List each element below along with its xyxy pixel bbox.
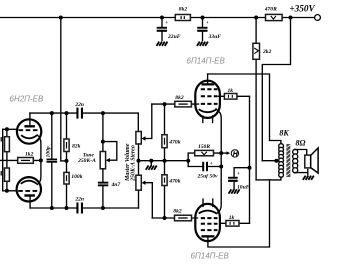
capacitor 22n bottom (74, 197, 84, 214)
svg-text:6Н2П-ЕВ: 6Н2П-ЕВ (10, 95, 44, 104)
pentode V2 envelope (195, 81, 220, 118)
capacitor 25uf 50v (188, 161, 221, 179)
capacitor C 33uF (197, 18, 221, 41)
triode V1b cathode (21, 181, 37, 184)
wire B+ top rail (1, 17, 315, 19)
svg-text:33uF: 33uF (208, 34, 222, 40)
node center tap (274, 159, 278, 163)
resistor 1k top (screen) (218, 88, 249, 99)
resistor input R bottom (5, 160, 10, 190)
pentode V3 envelope (195, 204, 220, 241)
node bottom-100p (50, 206, 54, 210)
transformer T1 primary (279, 144, 284, 178)
wire primary bottom lead (270, 177, 281, 180)
node gndrow-470k (163, 159, 167, 163)
wire center tap (262, 160, 279, 162)
svg-text:+: + (210, 161, 213, 167)
triode V1a circle (17, 119, 41, 143)
resistor 470k bottom (162, 161, 181, 218)
node pot-ground-row (137, 159, 141, 163)
wire secondary top (295, 150, 307, 156)
wire secondary bottom (295, 169, 308, 174)
svg-text:+350V: +350V (289, 4, 315, 14)
pentode V3 grids (201, 217, 218, 219)
node rail-22uF (160, 16, 164, 20)
transformer T1 secondary (293, 149, 298, 173)
node cathode-1k2 (39, 158, 43, 162)
pot Tone 250K-A (77, 152, 110, 169)
svg-text:22n: 22n (74, 102, 84, 108)
resistor 150R (188, 144, 221, 167)
wire ground row (139, 160, 189, 162)
svg-text:+: + (237, 171, 240, 177)
pot Master Volume bottom section (136, 175, 152, 218)
node grid2 (5, 189, 9, 193)
svg-text:1k: 1k (228, 88, 234, 94)
node rail-33uF (201, 16, 205, 20)
node bottom-100k (65, 206, 69, 210)
svg-text:8Ω: 8Ω (296, 139, 306, 148)
svg-text:100p: 100p (46, 146, 52, 157)
wire V2 plate to primary top (208, 74, 281, 144)
wire 2k2 to plate return (256, 179, 269, 181)
capacitor 100p (46, 113, 57, 208)
node plate1-82k (65, 111, 69, 115)
svg-text:4n7: 4n7 (111, 182, 121, 188)
svg-text:+: + (165, 20, 168, 26)
svg-text:150R: 150R (198, 144, 210, 150)
resistor 8k2 bottom (173, 209, 191, 221)
resistor 2k2 (253, 18, 272, 180)
svg-text:8k2: 8k2 (175, 95, 184, 101)
node 25uf-right (219, 165, 223, 169)
triode V1b grid (18, 190, 38, 192)
wire plate row V1b (bottom) (30, 207, 138, 209)
terminal +350V (315, 15, 321, 21)
wire B+ to transformer tap (262, 18, 290, 161)
node feedrow2-470k (163, 216, 167, 220)
resistor 470k top (162, 104, 181, 161)
capacitor 22n top (74, 102, 84, 119)
ground below 33uF (197, 42, 208, 46)
node bottom-4n7 (101, 206, 105, 210)
svg-text:8k2: 8k2 (173, 209, 182, 215)
svg-text:6П14П-ЕВ: 6П14П-ЕВ (191, 252, 230, 261)
resistor 8k2 top (series in rail) (175, 7, 190, 21)
ground below 22uF (157, 42, 168, 46)
pentode V2 plate (201, 83, 214, 85)
svg-text:+: + (206, 20, 209, 26)
triode V1a grid (19, 129, 39, 131)
wire grid row 2 (3, 190, 17, 192)
node screenbus-10uF (248, 166, 252, 170)
wire input left column (2, 129, 4, 191)
triode V1a cathode (21, 135, 37, 138)
resistor 1k2 (1, 152, 41, 164)
pentode V2 grids (201, 88, 218, 90)
node feedrow-470k (163, 102, 167, 106)
wire x60 B+ feed down to 82k/100k junction (61, 18, 67, 161)
triode V1a plate (24, 125, 35, 127)
capacitor C 22uF (157, 18, 181, 41)
label fragment left bottom (1, 171, 3, 176)
wire 8k2 feed row bottom (152, 217, 197, 219)
svg-text:25uf 50v: 25uf 50v (196, 174, 218, 180)
wire pot1 bottom to ground row (138, 144, 140, 175)
svg-text:470k: 470k (168, 179, 180, 185)
node tone wiper tie (101, 140, 105, 144)
arrow to H test point (221, 152, 226, 154)
node rail-2k2 (254, 16, 258, 20)
wire grid row 1 (3, 128, 18, 130)
wire tone top feed (102, 113, 104, 151)
ground at MV row (150, 161, 152, 166)
pot Master Volume top section (136, 104, 152, 144)
node rail-x60 (59, 16, 63, 20)
svg-text:100k: 100k (71, 174, 82, 180)
svg-text:6П14П-ЕВ: 6П14П-ЕВ (187, 57, 226, 66)
wire cathode column (37, 135, 41, 185)
node 82k-100k (65, 159, 69, 163)
node plate1-100p (50, 111, 54, 115)
node grid1 (5, 127, 9, 131)
svg-text:8K: 8K (279, 129, 289, 138)
svg-text:22n: 22n (74, 197, 84, 203)
svg-text:1k: 1k (229, 215, 235, 221)
wire 8k2 feed row top (152, 103, 199, 105)
svg-text:2k2: 2k2 (262, 49, 272, 55)
label fragment left top (1, 137, 3, 142)
pentode V2 cathode (199, 109, 217, 112)
pentode V3 heater stubs (203, 199, 213, 207)
svg-text:22uF: 22uF (167, 34, 181, 40)
capacitor 10uF (228, 168, 250, 191)
svg-text:470k: 470k (168, 140, 180, 146)
node rail-350 (289, 16, 293, 20)
wire tone wiper loop (103, 142, 117, 161)
pentode V2 heater stubs (203, 116, 213, 123)
node plate1-tone (101, 111, 105, 115)
resistor input R top (5, 129, 10, 160)
wire screen bus x249 (249, 96, 251, 223)
transformer core (286, 144, 290, 177)
node gndrow-stem (149, 159, 153, 163)
node 150R-left-gndrow (186, 159, 190, 163)
speaker SP1 (305, 148, 318, 173)
triode V1b plate (24, 194, 35, 196)
test point H (231, 150, 238, 157)
capacitor 4n7 (98, 169, 121, 208)
resistor 1k bottom (screen) (220, 215, 249, 226)
wire V2 cathode down (216, 109, 221, 153)
node 150R-right (219, 151, 223, 155)
wire plate row V1a (30, 113, 138, 131)
svg-text:470R: 470R (264, 7, 277, 13)
ground below 10uF (229, 189, 240, 193)
svg-text:82k: 82k (72, 144, 81, 150)
ground below speaker (303, 176, 314, 180)
svg-text:1k2: 1k2 (25, 152, 34, 158)
resistor 82k (64, 113, 81, 161)
svg-text:8k2: 8k2 (179, 7, 188, 13)
triode V1b circle (17, 177, 41, 201)
wire pot2 bottom to bottom row (138, 190, 140, 208)
svg-text:250K-A: 250K-A (77, 158, 96, 164)
pentode V3 cathode (199, 211, 217, 214)
wire cathode bus to V3 (217, 153, 221, 213)
resistor 8k2 mid (175, 95, 192, 107)
pentode V3 plate (201, 235, 214, 237)
resistor 470R (264, 7, 282, 21)
resistor 100k (64, 161, 83, 208)
